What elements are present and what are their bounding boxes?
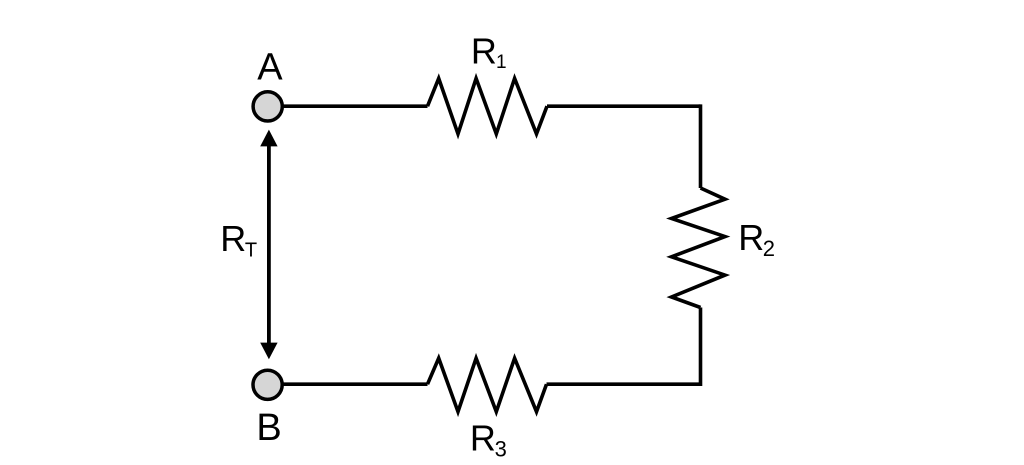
svg-text:R: R	[471, 30, 497, 71]
node B terminal circle	[253, 370, 282, 399]
RT double-headed arrow shaft	[267, 145, 271, 344]
RT arrowhead top	[260, 130, 277, 147]
svg-text:R: R	[470, 417, 496, 458]
svg-text:1: 1	[496, 52, 507, 73]
svg-text:3: 3	[495, 437, 507, 462]
wire top-right corner down to R2	[699, 104, 703, 188]
svg-text:R: R	[220, 218, 246, 259]
svg-text:B: B	[256, 407, 281, 449]
wire A to R1	[282, 104, 428, 108]
svg-text:2: 2	[763, 236, 775, 261]
wire bottom-right corner to R3	[547, 382, 701, 386]
wire R2 to bottom-right corner	[699, 308, 703, 387]
RT arrowhead bottom	[260, 343, 277, 360]
svg-text:A: A	[257, 47, 283, 89]
svg-text:R: R	[738, 217, 764, 258]
resistor R1	[428, 78, 548, 133]
node A terminal circle	[253, 92, 282, 121]
resistor R3	[428, 358, 547, 412]
svg-text:T: T	[245, 239, 257, 261]
resistor R2	[672, 188, 726, 308]
wire R3 to B	[282, 382, 428, 386]
wire R1 to top-right corner	[547, 104, 701, 108]
